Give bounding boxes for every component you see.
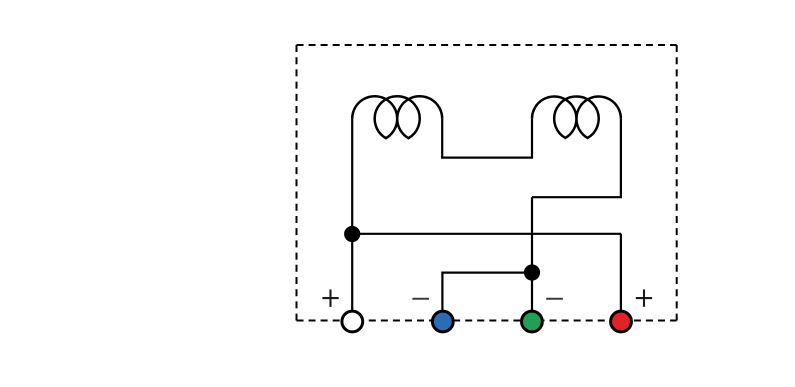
- junction B: [524, 264, 540, 280]
- terminal blue: [432, 311, 453, 332]
- terminal white: [342, 311, 363, 332]
- terminal green: [522, 311, 543, 332]
- terminal red: [611, 311, 632, 332]
- label + (white terminal): [322, 289, 338, 307]
- wire: left coil left terminal down to white terminal: [351, 119, 353, 310]
- wire: right coil right terminal down and left: [532, 119, 621, 198]
- wire: long horizontal from junction A to red column: [352, 233, 621, 235]
- inductor L2 (right coil): [532, 96, 621, 137]
- wire: vertical from upper horizontal down to green terminal: [531, 197, 533, 310]
- label + (red terminal): [636, 289, 652, 306]
- wire: series link between coils: [442, 119, 532, 158]
- junction A: [344, 226, 360, 242]
- wire: junction B horizontal to blue column: [442, 273, 532, 310]
- pickup boundary dashed box: [297, 45, 677, 321]
- label - (blue terminal): [412, 298, 429, 300]
- wire: vertical down to red terminal: [620, 234, 622, 310]
- inductor L1 (left coil): [352, 96, 442, 138]
- label - (green terminal): [546, 298, 563, 300]
